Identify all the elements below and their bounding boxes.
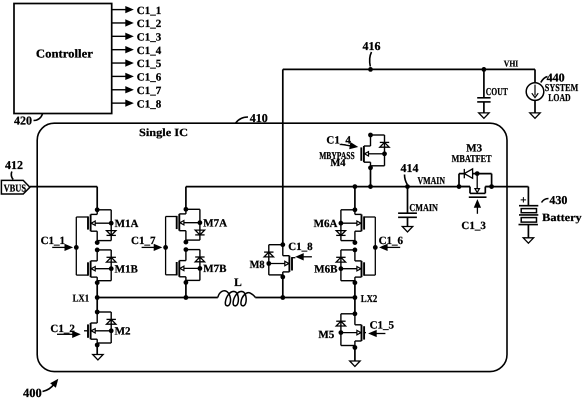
svg-text:C1_8: C1_8 [137, 98, 162, 110]
wire LX2 to M5 [354, 298, 356, 314]
svg-text:+: + [520, 194, 526, 206]
wire LX1 [97, 297, 218, 299]
transistor M4 [361, 133, 389, 171]
ground for M2 [93, 355, 103, 360]
svg-text:C1_7: C1_7 [137, 85, 162, 97]
body diode of M6A [336, 231, 345, 236]
body diode of M2 [107, 318, 116, 320]
controller block 420 [14, 4, 112, 114]
bulk tie of M7A [184, 222, 200, 224]
svg-text:Single IC: Single IC [139, 127, 188, 139]
transistor M3 MBATFET [457, 169, 494, 197]
body diode of M6B [336, 256, 345, 258]
wire LX2 [255, 297, 355, 299]
junction 416/M4 [368, 67, 373, 72]
wire LX1 to M2 [96, 298, 98, 313]
svg-text:C1_5: C1_5 [137, 58, 162, 70]
svg-text:LX2: LX2 [361, 294, 378, 305]
current source 440 SYSTEM LOAD [526, 83, 544, 101]
wire M1B to LX1 [96, 283, 98, 298]
control arrow C1_4 [341, 144, 351, 146]
svg-text:COUT: COUT [486, 87, 508, 98]
svg-text:410: 410 [250, 111, 268, 125]
control arrow C1_7 [142, 246, 155, 248]
junction M4/VMAIN [368, 184, 373, 189]
junction dots of M7B [184, 247, 189, 252]
svg-text:LX1: LX1 [73, 294, 90, 305]
junction VMAIN/M6A [353, 184, 358, 189]
wire controller output C1_5 [112, 62, 127, 64]
port VBUS 412 [1, 180, 30, 194]
svg-text:M5: M5 [318, 329, 334, 341]
svg-text:C1_5: C1_5 [370, 319, 395, 331]
body diode of M1A [107, 231, 116, 236]
wire VMAIN to battery [527, 186, 530, 188]
svg-text:C1_4: C1_4 [137, 45, 162, 57]
wire VMAIN rail [186, 186, 470, 188]
svg-text:M3: M3 [466, 142, 482, 154]
body diode of M7A [195, 230, 204, 235]
wire gate rail C1_1 [76, 216, 88, 218]
control arrow C1_6 [380, 245, 387, 251]
control arrow C1_8 [296, 254, 303, 260]
control arrow C1_1 [52, 246, 66, 248]
svg-text:420: 420 [14, 114, 32, 128]
bulk tie of M1B [95, 268, 111, 270]
junction gate C1_6 [373, 245, 378, 250]
arrow to IC 400 [43, 384, 55, 392]
wire gate stub M2 [84, 330, 88, 332]
wire gate rail C1_7 [166, 216, 177, 218]
wire VBUS to M1A [30, 186, 97, 188]
junction dots of M5 [353, 311, 358, 316]
control arrow C1_2 [57, 333, 73, 335]
wire controller output C1_8 [112, 102, 127, 104]
svg-text:M8: M8 [250, 259, 265, 271]
body diode of M5 [336, 320, 345, 322]
wire gate stub M5 [364, 332, 366, 334]
transistor M5 [336, 311, 364, 350]
junction dots of M8 [280, 242, 285, 247]
svg-text:M7B: M7B [203, 263, 227, 275]
junction gate C1_7 [163, 245, 168, 250]
junction dots of M1B [95, 248, 100, 253]
node LX1 [95, 295, 100, 300]
bulk tie of M6B [341, 268, 357, 270]
ground for CMAIN [402, 227, 412, 232]
control arrow C1_5 [369, 331, 376, 337]
capacitor COUT [482, 67, 487, 72]
transistor M7A [177, 207, 205, 245]
body diode of M7B [195, 256, 204, 258]
svg-text:C1_1: C1_1 [137, 5, 161, 17]
wire controller output C1_7 [112, 89, 127, 91]
wire 416 VHI [283, 68, 535, 70]
svg-text:VHI: VHI [504, 59, 519, 69]
transistor M7B [177, 247, 205, 285]
bulk tie of M4 [369, 153, 385, 155]
svg-text:C1_6: C1_6 [379, 235, 404, 247]
wire gate stub M8 [292, 257, 295, 259]
svg-text:M1B: M1B [115, 263, 139, 275]
svg-text:C1_3: C1_3 [137, 32, 162, 44]
bulk tie of M1A [95, 222, 111, 224]
junction gate C1_1 [74, 245, 79, 250]
bulk tie of M2 [95, 330, 111, 332]
svg-text:M6B: M6B [314, 263, 338, 275]
control arrow C1_3 [475, 200, 481, 207]
wire M7B to LX1 [185, 282, 187, 297]
svg-text:C1_6: C1_6 [137, 72, 162, 84]
wire M6B to LX2 [354, 283, 356, 298]
svg-text:VBUS: VBUS [4, 183, 27, 194]
svg-text:M1A: M1A [115, 218, 139, 230]
wire gate rail C1_6 [364, 216, 375, 218]
wire M2 to ground [96, 345, 98, 354]
junction dots of M4 [368, 133, 373, 138]
junction dots of M6B [353, 248, 358, 253]
wire controller output C1_1 [112, 9, 127, 11]
body diode of M3 [463, 169, 465, 178]
svg-text:LOAD: LOAD [548, 93, 571, 104]
svg-text:M7A: M7A [203, 217, 227, 229]
svg-text:L: L [234, 277, 242, 289]
svg-text:CMAIN: CMAIN [409, 203, 438, 214]
junction dots of M1A [95, 207, 100, 212]
ground for system load [530, 113, 540, 118]
wire VMAIN to M6A [354, 187, 356, 210]
svg-text:C1_4: C1_4 [326, 134, 351, 146]
junction dots of M2 [95, 310, 100, 315]
svg-text:C1_1: C1_1 [41, 235, 65, 247]
bulk tie of M5 [341, 332, 357, 334]
wire controller output C1_3 [112, 35, 127, 37]
wire controller output C1_2 [112, 22, 127, 24]
svg-text:M6A: M6A [314, 218, 338, 230]
wire M4 to VMAIN [370, 168, 372, 187]
junction VMAIN/CMAIN [405, 184, 410, 189]
transistor M6A [336, 207, 364, 245]
bulk tie of M6A [341, 222, 357, 224]
transistor M6B [336, 248, 364, 286]
ground for M5 [350, 361, 360, 366]
svg-text:C1_7: C1_7 [131, 235, 156, 247]
body diode of M8 [264, 251, 273, 253]
svg-text:C1_8: C1_8 [288, 241, 313, 253]
svg-text:400: 400 [23, 386, 42, 400]
svg-text:Controller: Controller [36, 47, 94, 61]
wire M8 to LX2 [282, 277, 284, 298]
wire controller output C1_4 [112, 49, 127, 51]
IC boundary box 410 [37, 123, 507, 371]
svg-text:C1_2: C1_2 [50, 323, 75, 335]
wire M5 to ground [354, 348, 356, 361]
svg-text:M2: M2 [115, 325, 131, 337]
junction dots of M6A [353, 207, 358, 212]
junction dots of M3 [457, 184, 462, 189]
junction M8/LX2 [280, 295, 285, 300]
svg-text:416: 416 [363, 39, 381, 53]
svg-text:VMAIN: VMAIN [418, 176, 446, 187]
svg-text:MBATFET: MBATFET [452, 154, 492, 165]
wire controller output C1_6 [112, 75, 127, 77]
svg-text:414: 414 [401, 161, 419, 175]
transistor M1A [88, 207, 116, 245]
bulk tie of M8 [269, 263, 285, 265]
svg-text:M4: M4 [330, 158, 346, 169]
inductor L [218, 291, 256, 306]
svg-text:430: 430 [549, 193, 567, 207]
transistor M2 [88, 310, 116, 348]
capacitor CMAIN [407, 187, 409, 213]
transistor M1B [88, 248, 116, 286]
ground for COUT [479, 113, 489, 118]
svg-text:412: 412 [5, 158, 23, 172]
transistor M8 [264, 242, 292, 279]
body diode of M1B [107, 256, 116, 258]
junction dots of M7A [184, 207, 189, 212]
ground for battery [523, 238, 533, 243]
bulk tie of M3 [476, 174, 478, 189]
svg-text:C1_2: C1_2 [137, 18, 162, 30]
node LX2 [353, 295, 358, 300]
svg-text:C1_3: C1_3 [461, 220, 486, 232]
body diode of M4 [380, 141, 389, 143]
svg-text:Battery: Battery [542, 212, 582, 224]
bulk tie of M7B [184, 267, 200, 269]
